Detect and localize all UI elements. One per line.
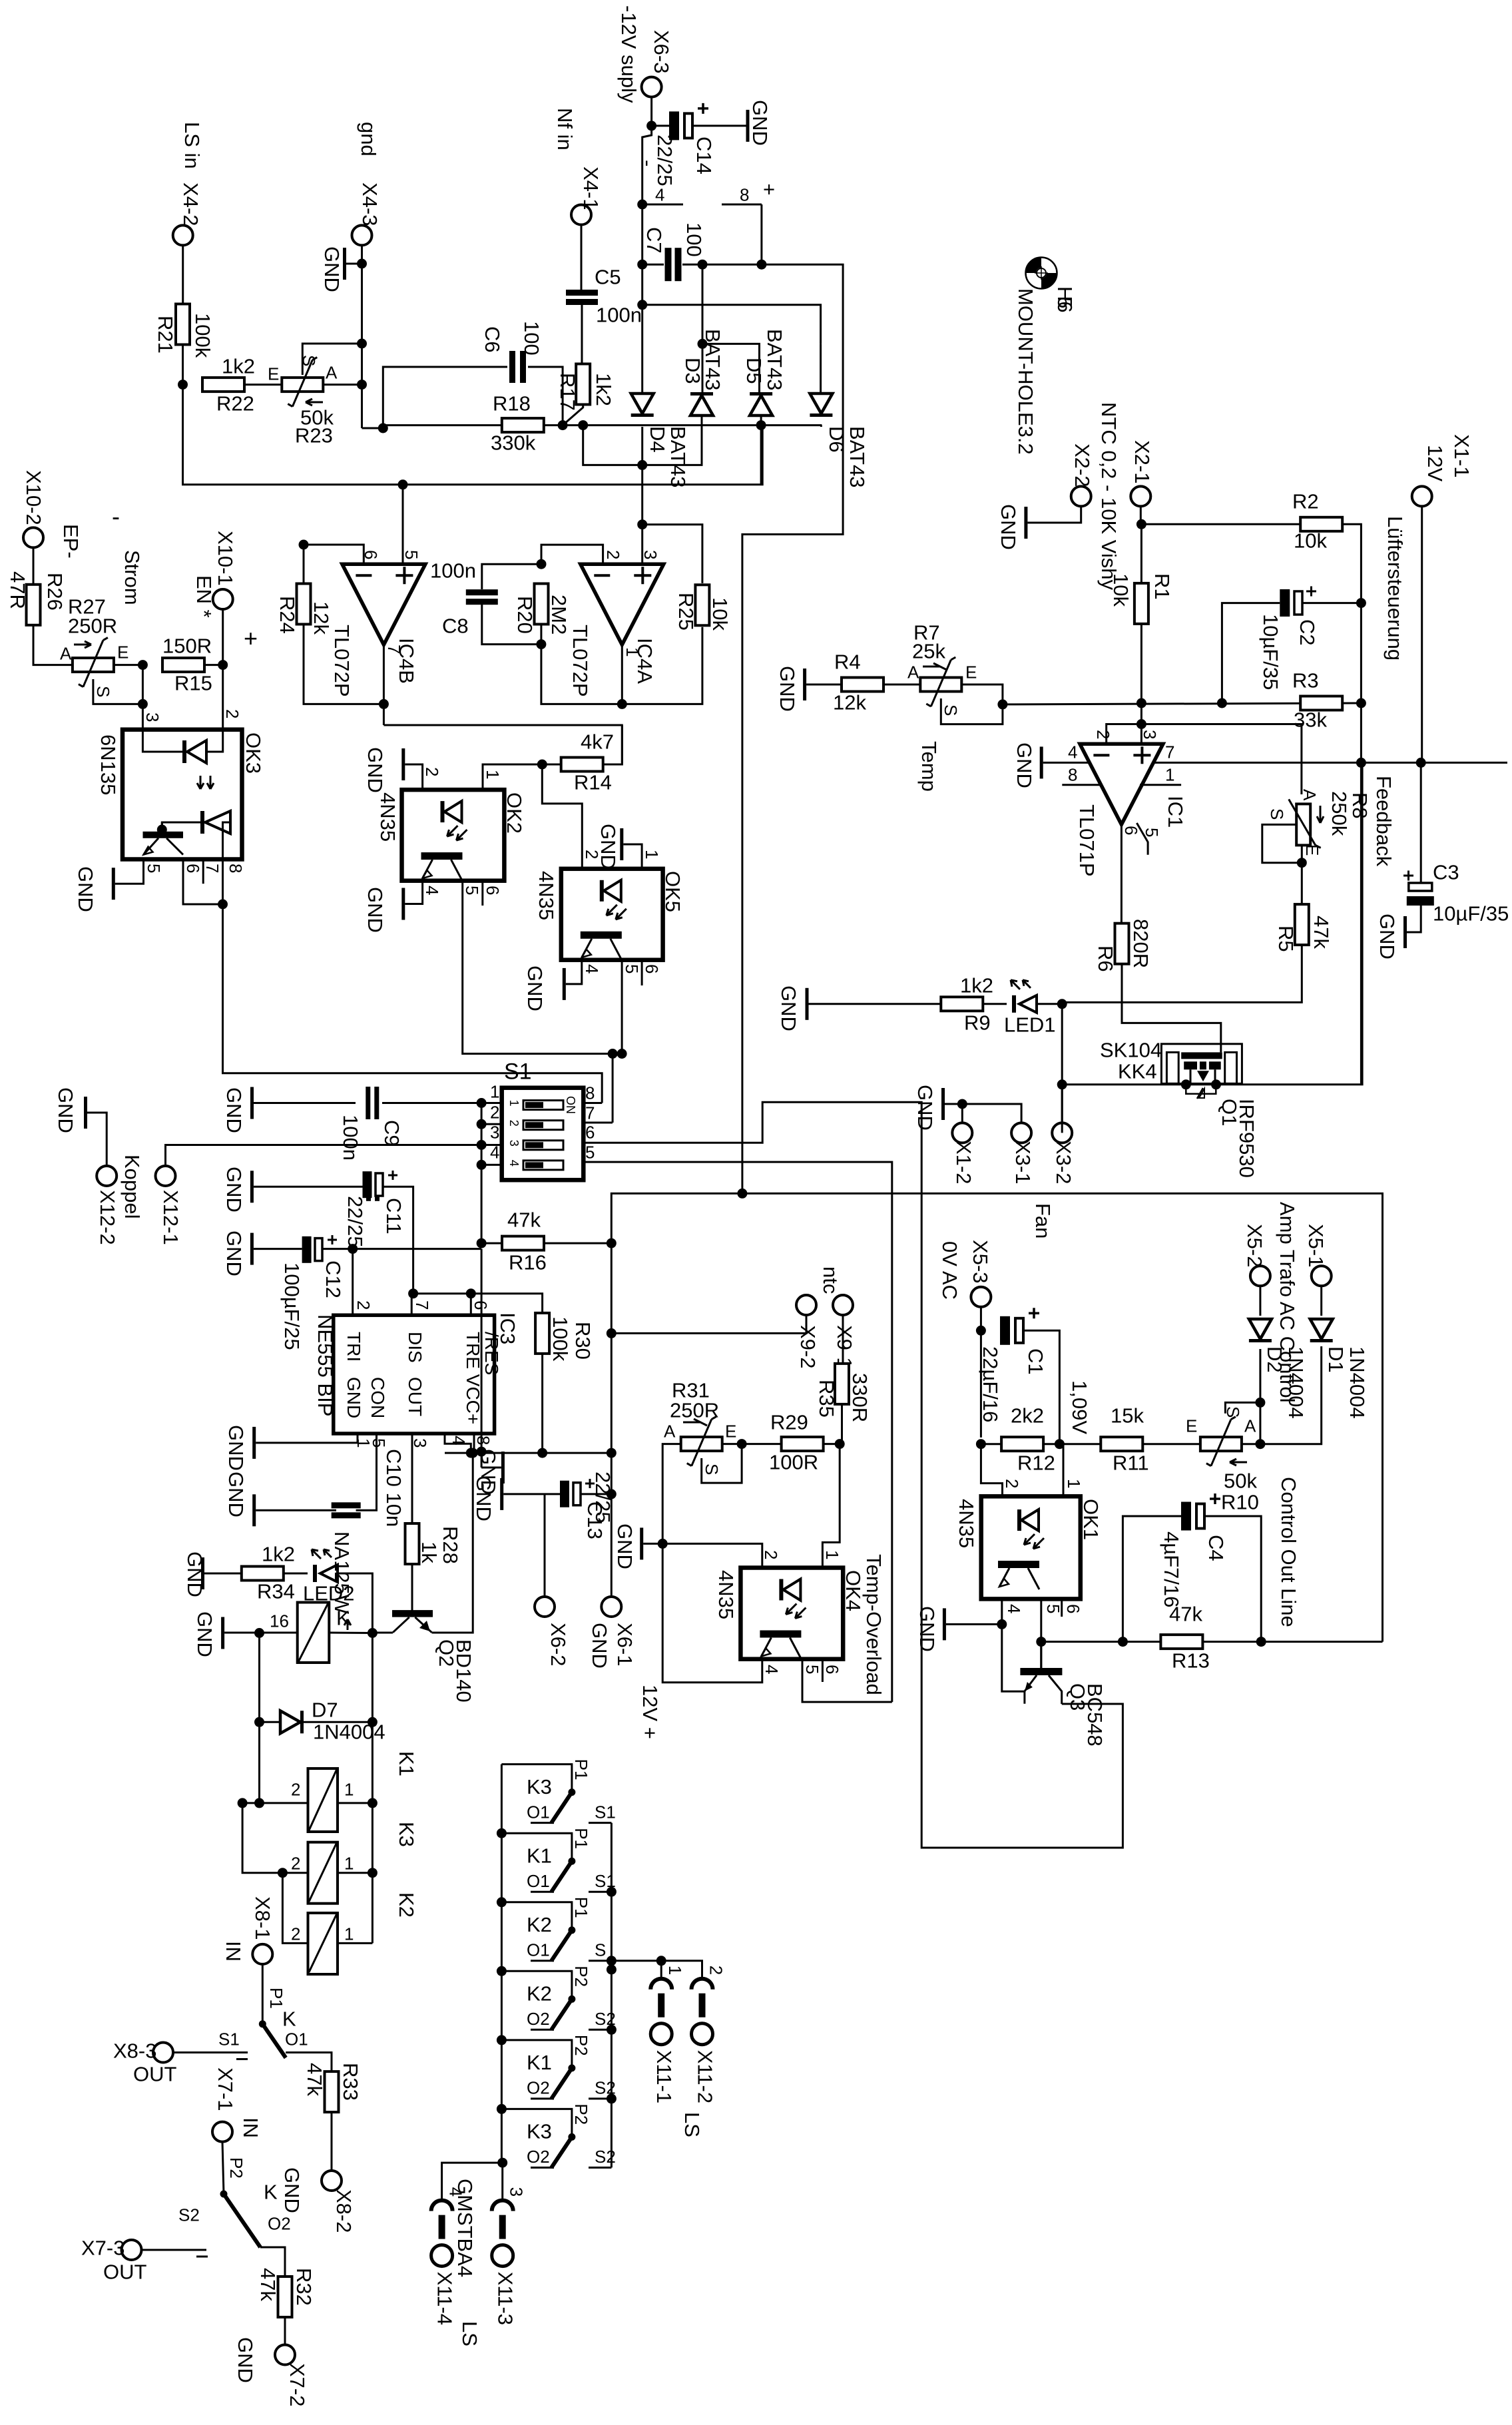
svg-text:BC548: BC548 xyxy=(1083,1683,1107,1747)
C2 left wire xyxy=(1222,603,1280,703)
IC4B pin5 wire xyxy=(402,485,404,564)
diode D7 xyxy=(280,1711,304,1733)
svg-text:P2: P2 xyxy=(571,2103,591,2125)
svg-text:GND: GND xyxy=(222,1167,246,1212)
R32 bottom wire xyxy=(284,2317,286,2345)
svg-text:EP-: EP- xyxy=(59,524,83,559)
X5-3 wire down xyxy=(980,1307,982,1438)
junction K1 left a xyxy=(238,1798,248,1808)
right bus down xyxy=(372,1633,374,1944)
optocoupler OK2 box xyxy=(402,790,505,881)
optocoupler OK1 internals xyxy=(998,1509,1044,1589)
svg-text:R23: R23 xyxy=(295,423,333,447)
svg-text:S: S xyxy=(702,1464,722,1475)
wire C7 node to D3/D5 row xyxy=(702,264,704,344)
switch S2 terminal xyxy=(142,2249,207,2251)
wire X10-2 to R26 xyxy=(33,547,35,585)
connector X3-2 xyxy=(1052,1123,1072,1143)
R1 bottom wire xyxy=(1140,624,1142,744)
wire C7 right xyxy=(682,264,702,266)
svg-text:X3-1: X3-1 xyxy=(1011,1141,1035,1184)
svg-text:100: 100 xyxy=(520,321,543,356)
contact S bus xyxy=(611,1823,613,2168)
svg-text:1k2: 1k2 xyxy=(592,373,615,406)
junction R25 top / pin3 xyxy=(637,519,647,529)
contact left bus xyxy=(501,1764,503,2163)
svg-text:C11: C11 xyxy=(382,1198,405,1234)
capacitor C12 polarized xyxy=(302,1235,337,1263)
svg-text:BAT43: BAT43 xyxy=(846,426,869,487)
relay contact 2 K1 P wire xyxy=(501,1833,572,1861)
wire D3/D5 row xyxy=(702,344,760,394)
R35 bottom wire xyxy=(841,1404,843,1444)
OK3 photodiode cathode wire xyxy=(162,822,200,832)
R30 bottom wire xyxy=(541,1354,543,1453)
junction IC4A out xyxy=(617,699,627,709)
svg-text:TL072P: TL072P xyxy=(330,625,354,697)
svg-text:5: 5 xyxy=(585,1143,595,1163)
svg-text:33k: 33k xyxy=(1294,708,1327,731)
relay contact 2 K1 O line xyxy=(531,1891,554,1893)
ground symbol at C3 xyxy=(1403,916,1407,948)
D2 bottom wire xyxy=(1259,1349,1261,1444)
svg-text:1: 1 xyxy=(344,1854,354,1874)
wire C6 left xyxy=(383,367,507,428)
svg-text:P2: P2 xyxy=(571,1966,591,1987)
junction S bus 3a xyxy=(607,1956,617,1966)
LED LED2 xyxy=(312,1549,338,1582)
svg-text:2k2: 2k2 xyxy=(1011,1404,1044,1427)
OK1 pin5 wire xyxy=(1040,1599,1042,1668)
relay contact 1 K3 O line xyxy=(531,1822,554,1824)
svg-text:A: A xyxy=(326,363,338,383)
svg-text:1: 1 xyxy=(1165,765,1174,785)
svg-text:4k7: 4k7 xyxy=(581,730,614,753)
junction C6 loop xyxy=(378,423,388,433)
connector X10-2 xyxy=(23,527,43,547)
pot R8 S loop xyxy=(1262,824,1302,862)
connector X8-2 xyxy=(322,2171,342,2191)
OK1 pin6 stub xyxy=(1061,1599,1063,1617)
S1 pin4 stub xyxy=(481,1164,502,1166)
svg-text:100n: 100n xyxy=(596,303,642,326)
svg-text:K2: K2 xyxy=(395,1892,418,1918)
resistor R25 xyxy=(695,585,709,625)
svg-text:330R: 330R xyxy=(848,1373,872,1422)
svg-text:10k: 10k xyxy=(1109,573,1133,607)
R29 node to OK4 pin1 xyxy=(822,1444,840,1568)
junction pin8/C7 xyxy=(756,260,766,270)
junction R30 bottom xyxy=(537,1448,547,1458)
svg-text:/RES: /RES xyxy=(481,1332,502,1375)
wire R21 to node xyxy=(182,345,184,385)
svg-text:4: 4 xyxy=(762,1665,782,1674)
relay contact 3 K2 O line xyxy=(531,1960,554,1962)
svg-text:R12: R12 xyxy=(1017,1451,1055,1474)
junction IC4B out xyxy=(379,699,389,709)
junction R27 S xyxy=(138,699,148,709)
svg-text:1: 1 xyxy=(483,770,503,779)
IC3 pin2 wire xyxy=(352,1249,354,1316)
junction C4 left xyxy=(1118,1637,1128,1647)
pot R7 arrow xyxy=(923,663,947,670)
junction Q1 drain xyxy=(1211,1079,1221,1089)
connector X6-1 xyxy=(601,1597,621,1617)
wire opamp plus rail xyxy=(641,465,643,564)
svg-text:GND: GND xyxy=(344,1377,364,1418)
svg-text:5: 5 xyxy=(144,864,164,873)
ground stem to R4 xyxy=(806,684,842,686)
junction D4 bottom xyxy=(637,460,647,470)
svg-text:12V: 12V xyxy=(1423,445,1447,481)
junction middle vertical end xyxy=(737,1189,747,1199)
wire X4-1 to C5 xyxy=(581,225,583,290)
pot R7 E wire xyxy=(962,684,1003,704)
switch O2 wire xyxy=(260,2247,285,2277)
junction pin8 row xyxy=(466,1448,476,1458)
relay contact 1 K3 S line xyxy=(589,1822,611,1824)
C12 row to bus xyxy=(353,1248,481,1250)
svg-text:22/25: 22/25 xyxy=(591,1472,615,1523)
svg-text:OK1: OK1 xyxy=(1079,1499,1103,1540)
R14 left wire to OK2 pin1 xyxy=(483,764,561,790)
relay contact 6 K3 P wire xyxy=(501,2109,572,2137)
svg-text:100µF/25: 100µF/25 xyxy=(280,1262,304,1350)
connector X5-1 xyxy=(1312,1266,1332,1286)
LED1 to node xyxy=(1037,1003,1062,1005)
wire C7 left stub xyxy=(642,264,664,266)
ground symbol at OK1 pin4 xyxy=(943,1608,946,1640)
svg-text:GND: GND xyxy=(1376,914,1399,959)
S1 slot 2 xyxy=(507,1120,563,1130)
svg-text:7: 7 xyxy=(1165,742,1174,762)
R14 right loop xyxy=(603,725,623,764)
X9-1 wire to R35 xyxy=(842,1315,844,1364)
wire C6 right xyxy=(528,367,563,425)
connector X3-1 xyxy=(1011,1123,1031,1143)
svg-text:O1: O1 xyxy=(527,1802,550,1822)
svg-text:X10-1: X10-1 xyxy=(214,531,237,586)
relay contact 3 K2 pivot xyxy=(568,1926,575,1934)
C8 top wire xyxy=(482,564,541,589)
svg-text:S2: S2 xyxy=(178,2205,200,2225)
svg-text:R26: R26 xyxy=(43,573,67,611)
svg-text:6: 6 xyxy=(822,1665,842,1674)
op-amp IC4B xyxy=(342,564,425,645)
svg-text:1: 1 xyxy=(507,1100,521,1107)
svg-text:R20: R20 xyxy=(513,596,537,634)
relay contact 5 K1 P wire xyxy=(501,2040,572,2068)
IC4B pin6 loop xyxy=(304,545,364,583)
ground stem X1-2 row xyxy=(945,1104,1021,1123)
pin2 row to R8 xyxy=(1141,724,1302,795)
OK4 pin2 wire xyxy=(662,1543,762,1567)
svg-text:ON: ON xyxy=(564,1096,577,1114)
svg-text:NTC 0,2 - 10K Vishy: NTC 0,2 - 10K Vishy xyxy=(1097,402,1121,590)
wire R23 A to gnd bus xyxy=(324,384,362,386)
IC4A out to R25 xyxy=(622,627,702,704)
S1 pin1 wire xyxy=(382,1102,502,1104)
svg-text:X11-3: X11-3 xyxy=(494,2272,517,2325)
R28 bottom wire xyxy=(411,1564,413,1611)
svg-text:15k: 15k xyxy=(1111,1404,1144,1427)
R31 A wire xyxy=(662,1444,680,1544)
connector X2-1 xyxy=(1131,486,1150,506)
C13 left wire to ground xyxy=(503,1493,560,1495)
ground stem IC3 right xyxy=(481,1467,501,1469)
svg-text:GND: GND xyxy=(523,965,547,1011)
svg-text:2: 2 xyxy=(490,1103,499,1123)
connector X4-2 xyxy=(173,225,193,245)
svg-text:3: 3 xyxy=(142,712,162,722)
svg-text:D3: D3 xyxy=(681,358,704,384)
svg-text:D5: D5 xyxy=(742,358,766,384)
K3 coil right wire xyxy=(338,1872,372,1874)
svg-text:2: 2 xyxy=(706,1966,726,1975)
OK3 photodiode xyxy=(200,811,230,834)
OK1 pin4 wire xyxy=(1002,1599,1025,1703)
svg-text:X4-2: X4-2 xyxy=(179,182,202,226)
Q2 collector wire xyxy=(372,1632,393,1634)
resistor R13 xyxy=(1160,1635,1202,1649)
relay K right wire xyxy=(329,1632,372,1635)
svg-text:R11: R11 xyxy=(1113,1451,1149,1474)
svg-text:A: A xyxy=(664,1422,676,1442)
relay contact 6 K3 S line xyxy=(589,2167,611,2169)
svg-text:10k: 10k xyxy=(708,597,732,631)
svg-text:DIS: DIS xyxy=(405,1332,425,1363)
diode D3 xyxy=(690,392,713,415)
S1 pin8 loop xyxy=(583,1102,602,1104)
OK3 pin2 inner wire xyxy=(206,730,223,752)
relay K coil xyxy=(298,1603,330,1663)
R20 bottom to out xyxy=(541,625,622,704)
connector X11-2 xyxy=(692,1979,713,2045)
R16 left wire xyxy=(481,1242,502,1244)
connector X11-4 xyxy=(431,2201,453,2267)
svg-text:X10-2: X10-2 xyxy=(22,470,45,525)
svg-text:S1: S1 xyxy=(504,1059,532,1085)
svg-text:4: 4 xyxy=(507,1160,521,1167)
X12-1 wire xyxy=(166,1145,482,1167)
relay contact 4 K2 O line xyxy=(531,2029,554,2031)
junction R13 right xyxy=(1256,1637,1266,1647)
junction Q2 12V xyxy=(468,1448,478,1458)
junction S1 pin4 xyxy=(477,1160,487,1170)
svg-text:1k: 1k xyxy=(417,1541,441,1563)
svg-text:330k: 330k xyxy=(491,431,536,454)
junction R29 right xyxy=(835,1439,845,1449)
R12 right to R11 xyxy=(1043,1443,1101,1445)
svg-text:R8: R8 xyxy=(1348,792,1372,819)
junction X9-2 branch xyxy=(607,1328,617,1338)
ground symbol at X12-2 xyxy=(84,1097,87,1129)
svg-text:R33: R33 xyxy=(339,2063,362,2101)
svg-text:LED1: LED1 xyxy=(1004,1013,1056,1036)
relay contact 1 K3 P wire xyxy=(501,1764,572,1792)
relay contact 5 K1 lever xyxy=(551,2068,572,2099)
OK5 pin1 wire xyxy=(623,844,642,869)
svg-text:R34: R34 xyxy=(257,1579,295,1603)
capacitor C6 xyxy=(509,351,526,383)
relay contact 2 K1 S line xyxy=(589,1891,611,1893)
svg-text:X4-3: X4-3 xyxy=(358,182,381,226)
capacitor C10 xyxy=(332,1502,361,1518)
R25 top wire xyxy=(642,525,702,583)
X9-2 branch wire xyxy=(611,1315,806,1333)
capacitor C3 polarized xyxy=(1403,871,1434,906)
A row to D1 xyxy=(1260,1346,1322,1444)
ground stem R34 xyxy=(204,1573,242,1575)
junction S1 pin3 xyxy=(477,1140,487,1150)
svg-text:X8-1: X8-1 xyxy=(251,1896,274,1940)
wire node to IC4B row xyxy=(183,385,403,485)
resistor R17 xyxy=(576,364,590,405)
pot R31 S loop xyxy=(702,1444,742,1483)
svg-text:S: S xyxy=(595,1940,606,1960)
junction contact bus 2 xyxy=(497,1828,507,1838)
switch S1 terminal tick xyxy=(236,2058,248,2060)
resistor R2 xyxy=(1300,517,1342,531)
junction K3 left xyxy=(278,1868,288,1878)
R4 to R7 xyxy=(883,684,920,686)
wire -12V rail down xyxy=(642,126,652,204)
svg-text:1: 1 xyxy=(642,850,662,859)
svg-text:250k: 250k xyxy=(1328,791,1351,836)
svg-text:GND: GND xyxy=(364,887,387,933)
junction X1-1 12V row xyxy=(1416,758,1426,768)
pot R7 S loop xyxy=(941,698,1003,724)
svg-text:GND: GND xyxy=(183,1551,206,1597)
wire gnd bus to C6 loop xyxy=(362,427,383,429)
svg-text:7: 7 xyxy=(202,864,222,873)
svg-text:GND: GND xyxy=(1013,742,1036,788)
svg-text:ntc: ntc xyxy=(819,1266,842,1294)
wire D3 top xyxy=(702,344,704,394)
svg-text:5: 5 xyxy=(462,886,482,895)
svg-text:C4: C4 xyxy=(1204,1535,1228,1561)
svg-text:R18: R18 xyxy=(493,392,531,415)
svg-text:1k2: 1k2 xyxy=(960,973,993,997)
pin6 row to R30 xyxy=(413,1294,543,1313)
svg-text:C7: C7 xyxy=(642,227,666,254)
svg-text:E: E xyxy=(268,364,279,384)
svg-text:R35: R35 xyxy=(815,1380,838,1418)
svg-text:2: 2 xyxy=(603,550,623,559)
junction S bus 4 xyxy=(607,2025,617,2035)
svg-text:X5-2: X5-2 xyxy=(1243,1224,1266,1267)
pot R23 arrow xyxy=(306,399,323,405)
capacitor C13 polarized xyxy=(560,1479,595,1507)
wire X4-3 down xyxy=(361,245,363,428)
svg-text:O1: O1 xyxy=(285,2029,308,2049)
diode D2 xyxy=(1249,1319,1272,1342)
svg-text:5: 5 xyxy=(369,1438,389,1448)
svg-text:100n: 100n xyxy=(430,559,476,582)
svg-text:E: E xyxy=(1302,844,1322,856)
D7 left wire xyxy=(260,1721,281,1723)
R13 right to rail xyxy=(1202,1641,1383,1643)
coil bus left xyxy=(242,1803,282,1873)
IC3 pin1 wire to ground xyxy=(256,1434,358,1443)
svg-text:4N35: 4N35 xyxy=(714,1570,738,1619)
relay contact 4 K2 P wire xyxy=(501,1971,572,1999)
OK2 pin4 wire to ground xyxy=(405,881,422,904)
OK4 pin6 stub xyxy=(822,1659,824,1682)
pot R31 arrow xyxy=(683,1419,707,1426)
wire IC4B pin5 row xyxy=(403,425,762,485)
connector X7-3 xyxy=(122,2240,142,2260)
resistor R24 xyxy=(297,584,311,625)
svg-text:X7-1: X7-1 xyxy=(214,2067,237,2111)
svg-text:X12-1: X12-1 xyxy=(159,1190,182,1245)
svg-text:C14: C14 xyxy=(692,136,716,174)
svg-text:Feedback: Feedback xyxy=(1372,776,1395,867)
svg-text:X7-3: X7-3 xyxy=(81,2236,125,2259)
IC3 VCC row xyxy=(445,1452,611,1454)
svg-text:R17: R17 xyxy=(556,373,579,411)
OK4 gnd down to pin4 xyxy=(662,1543,762,1682)
svg-text:IC1: IC1 xyxy=(1164,796,1187,828)
svg-text:R29: R29 xyxy=(770,1410,808,1434)
svg-text:E: E xyxy=(117,643,128,663)
left bus to D7 xyxy=(258,1633,260,1803)
C11 left wire xyxy=(254,1186,363,1188)
Q2 emitter wire xyxy=(432,1453,473,1633)
S1 pin6 wire xyxy=(583,1102,1123,1848)
junction C2 left xyxy=(1217,698,1227,708)
junction R23-S xyxy=(357,339,367,349)
resistor R21 xyxy=(176,304,190,345)
R12 left node to OK1 pin2 xyxy=(981,1444,1002,1497)
svg-text:Control Out Line: Control Out Line xyxy=(1277,1477,1300,1627)
IC1 pin2 wire xyxy=(1107,724,1142,744)
IC3 pin4 jog xyxy=(445,1434,471,1453)
connector X7-2 xyxy=(275,2345,295,2365)
svg-text:LS: LS xyxy=(458,2321,481,2346)
svg-text:5: 5 xyxy=(622,964,642,973)
svg-text:C10 10n: C10 10n xyxy=(382,1449,405,1527)
svg-text:OUT: OUT xyxy=(103,2260,147,2283)
ground symbol at OK5 pin1 xyxy=(620,828,623,860)
svg-text:50k: 50k xyxy=(1224,1469,1257,1492)
potentiometer R23 xyxy=(282,358,323,407)
S1 slot 3 xyxy=(507,1140,563,1150)
svg-text:X9-2: X9-2 xyxy=(796,1325,820,1368)
wire X4-2 to R21 xyxy=(182,245,184,304)
svg-text:Koppel: Koppel xyxy=(121,1155,144,1219)
svg-text:GND: GND xyxy=(234,2337,257,2383)
svg-text:R1: R1 xyxy=(1150,573,1174,600)
R2 row xyxy=(1141,523,1300,525)
svg-text:X5-1: X5-1 xyxy=(1304,1224,1328,1267)
resistor R26 xyxy=(27,585,41,625)
ground symbol at C14 xyxy=(746,110,750,142)
svg-text:GND: GND xyxy=(280,2167,304,2213)
svg-text:3: 3 xyxy=(1140,730,1160,739)
junction contact bus 3 xyxy=(497,1897,507,1907)
wire R18 left xyxy=(383,424,502,426)
wire to D4 top xyxy=(641,305,643,394)
wire down to OK3 pin3 xyxy=(142,665,144,730)
ground symbol at IC3 pin1 xyxy=(252,1427,256,1459)
svg-text:100k: 100k xyxy=(191,313,214,358)
ground symbol at OK2 pin4 xyxy=(401,888,405,920)
svg-text:KK4: KK4 xyxy=(1118,1059,1157,1083)
relay contact 6 K3 O line xyxy=(531,2167,554,2169)
svg-text:A: A xyxy=(907,663,919,682)
potentiometer R10 xyxy=(1200,1417,1242,1466)
